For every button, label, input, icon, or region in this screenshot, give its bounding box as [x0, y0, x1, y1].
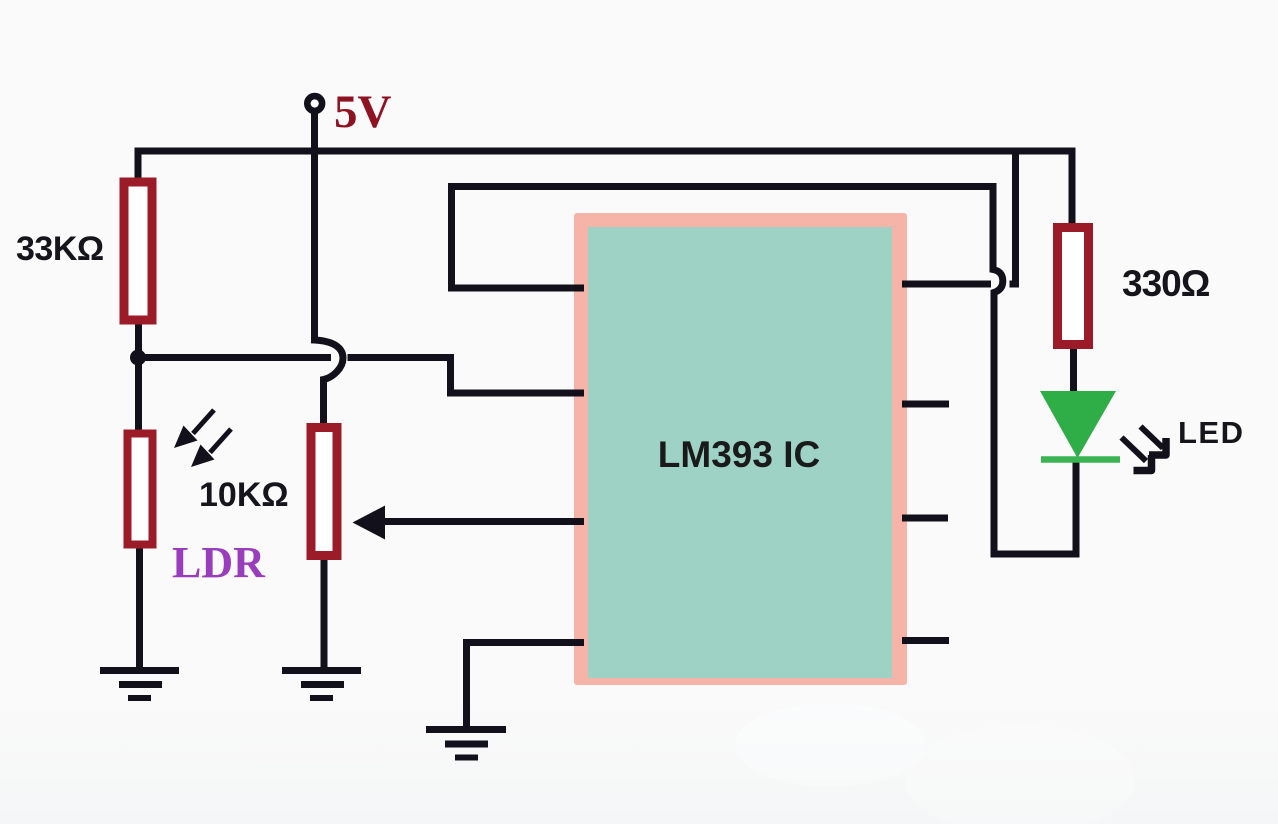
wire 330R bottom to LED anode — [1070, 348, 1077, 392]
node A junction dot — [130, 350, 146, 366]
resistor R3 330 ohm — [1058, 228, 1089, 345]
potentiometer 10K body — [311, 428, 337, 556]
wire wiper of pot to IC pin3 — [384, 518, 584, 525]
wire IC right stub pin6 — [902, 515, 948, 522]
wire IC right stub pin5 — [902, 637, 949, 644]
svg-text:LDR: LDR — [172, 538, 266, 587]
wire 5V rail from 33K top to 330R top — [138, 151, 1072, 224]
LDR photoresistor body — [128, 434, 153, 545]
LED cathode bar — [1041, 456, 1120, 463]
wire pin8 riser to 5V rail — [1010, 152, 1016, 284]
op-amp U1 LM393 IC body — [574, 213, 907, 685]
svg-text:LM393 IC: LM393 IC — [658, 434, 820, 475]
wire LDR bottom to ground — [136, 548, 143, 670]
svg-text:330Ω: 330Ω — [1122, 263, 1210, 304]
LED emission arrow 1 — [1122, 438, 1152, 471]
wire pot bottom to ground — [321, 559, 328, 670]
resistor R1 33K — [124, 182, 152, 320]
svg-text:5V: 5V — [334, 86, 392, 138]
svg-text:LED: LED — [1178, 415, 1245, 450]
wire node A horizontal left segment — [136, 354, 331, 361]
wire IC right stub pin7 — [902, 401, 949, 408]
ground for IC pin4 — [426, 730, 506, 758]
ground under LDR — [100, 671, 179, 699]
wire 5V stem with hop over junction wire — [315, 112, 344, 424]
5V terminal circle — [307, 96, 322, 111]
LED D1 triangle — [1040, 391, 1116, 458]
svg-text:10KΩ: 10KΩ — [199, 476, 289, 514]
wire IC pin1 output loop over IC, down right side with hop bulge, to LED cathode — [452, 187, 1077, 555]
svg-text:33KΩ: 33KΩ — [16, 230, 104, 268]
ground under potentiometer — [282, 671, 361, 699]
LDR light arrow 1 — [174, 410, 214, 448]
wire IC pin4 to ground — [467, 643, 585, 728]
wire 33K bottom through node to LDR top — [135, 323, 142, 430]
wire IC pin8 VCC stub — [902, 281, 991, 288]
potentiometer wiper arrowhead — [353, 506, 386, 540]
LED emission arrow 2 — [1141, 427, 1167, 456]
LDR light arrow 2 — [191, 429, 231, 467]
wire node A to IC pin2 (IN-) — [348, 358, 585, 394]
